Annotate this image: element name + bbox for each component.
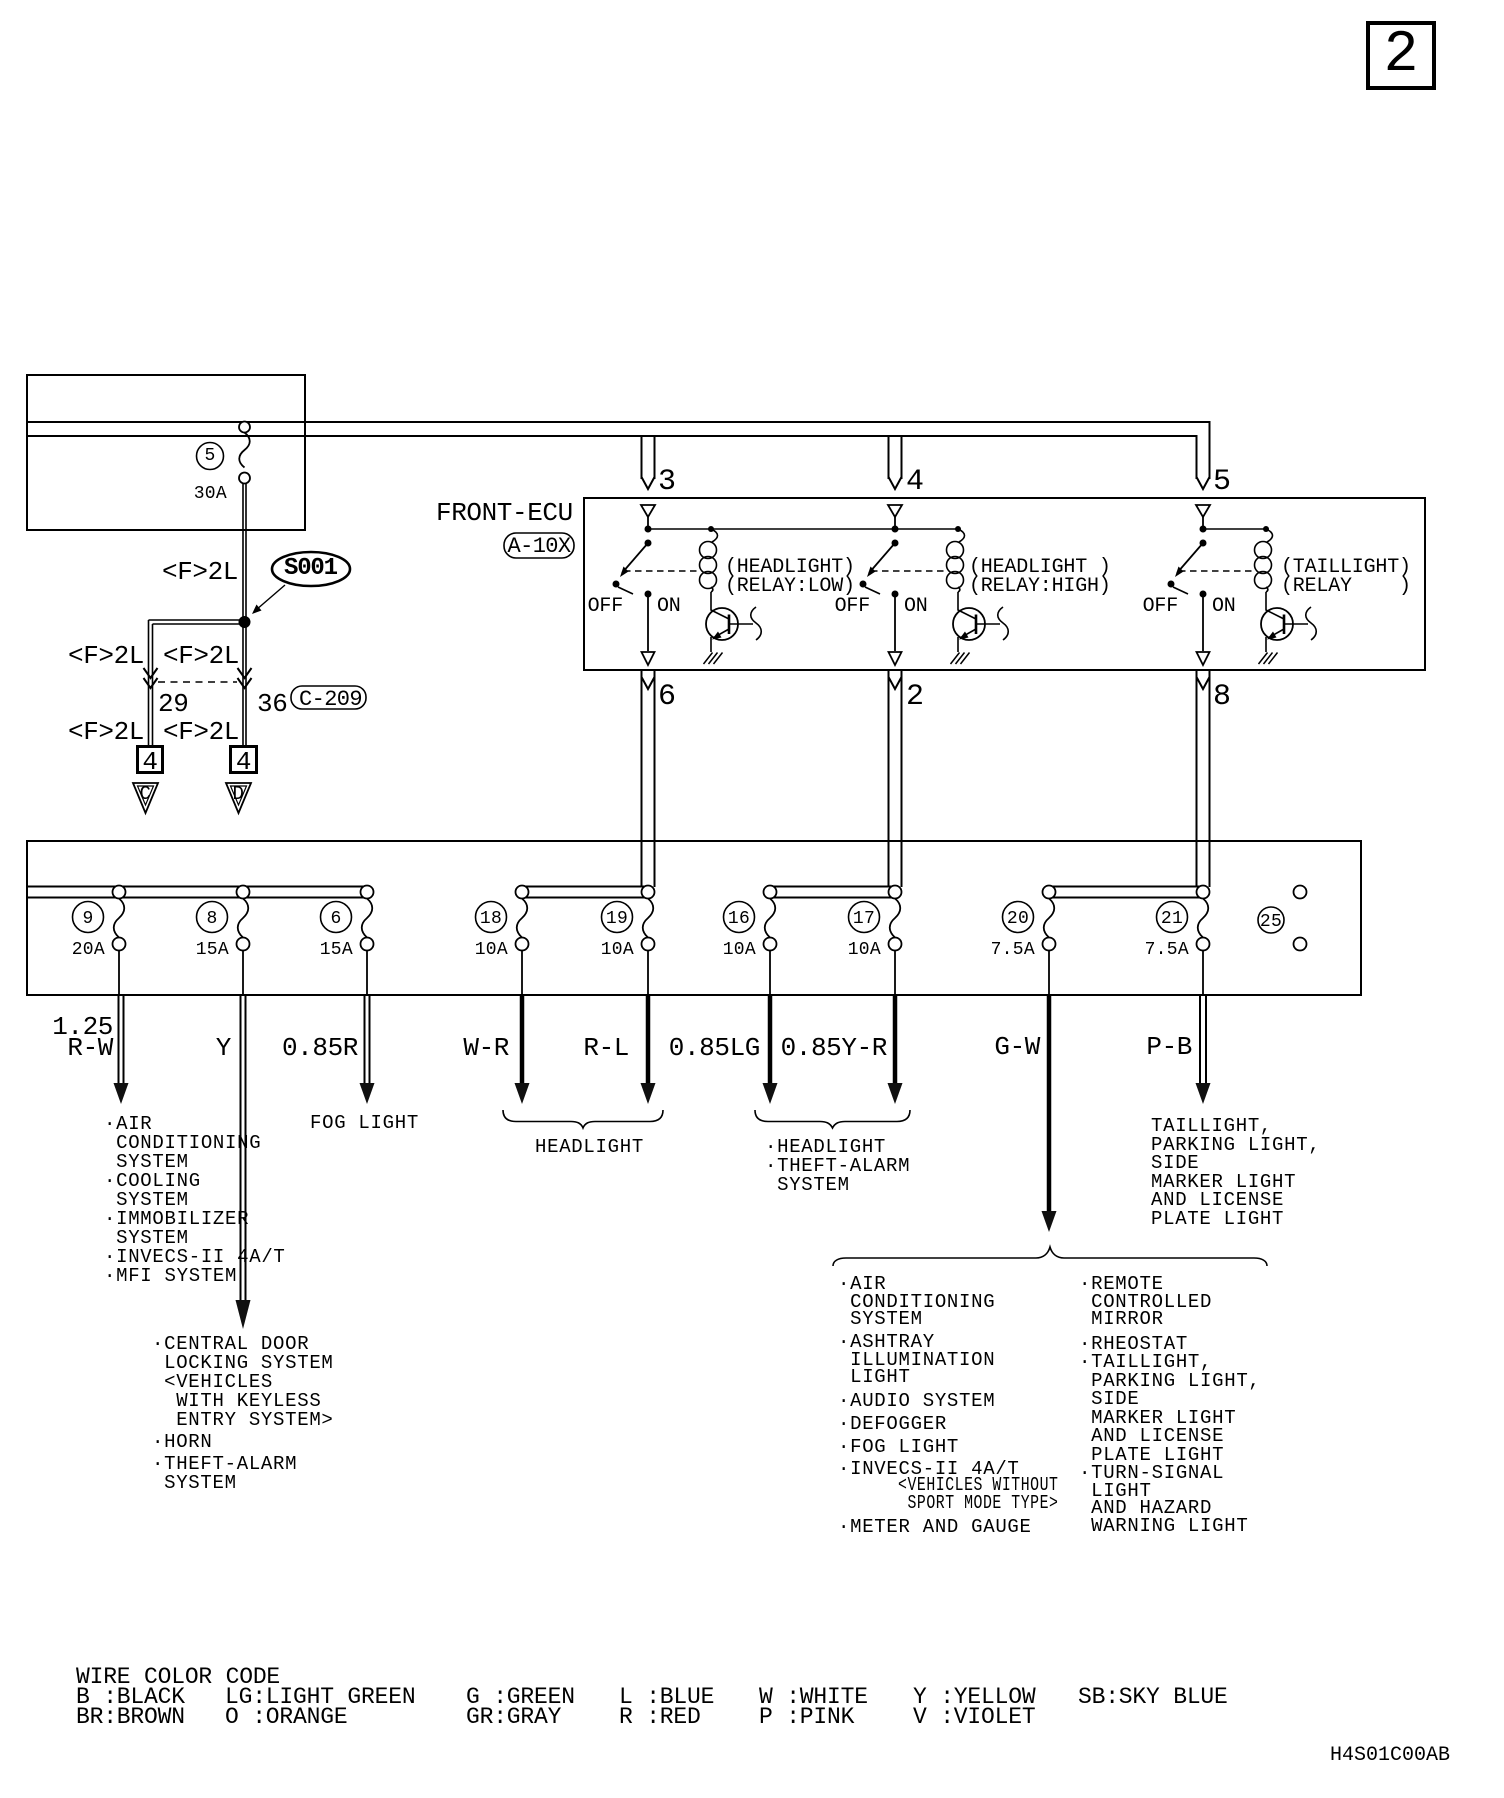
fuse 5 designator bbox=[195, 448, 225, 464]
wire P-B from fuse 21 bbox=[1196, 995, 1211, 1104]
label (F)2L left mid bbox=[68, 645, 144, 667]
connector chevron pin 6 bbox=[642, 677, 655, 689]
wire 1.25R-W from fuse 9 bbox=[114, 995, 129, 1104]
brace headlight group (fuses 18,19) bbox=[503, 1110, 663, 1128]
fuse 5 rating 30A bbox=[194, 486, 227, 502]
relay U3 name bbox=[1281, 559, 1411, 596]
C-209 label stadium bbox=[291, 686, 366, 709]
relay U2 OFF bbox=[835, 598, 870, 617]
relay U2 headlight relay high bbox=[860, 505, 1009, 665]
wire color Y bbox=[216, 1037, 231, 1059]
pin 3 bbox=[658, 469, 675, 495]
pin 4 bbox=[906, 469, 923, 495]
color code col 7 bbox=[1078, 1687, 1228, 1707]
wire: FRONT-ECU pin 2 to fuse 17 bbox=[889, 670, 902, 887]
pin 5 bbox=[1213, 469, 1230, 495]
fuse 21 rating bbox=[1145, 942, 1189, 958]
relay U1 ON bbox=[657, 598, 681, 617]
connector C-209 chevron right (pin 36) bbox=[238, 668, 252, 688]
wire color R-W bbox=[67, 1037, 113, 1059]
fuse 5 30A bbox=[197, 422, 251, 484]
FRONT-ECU box bbox=[584, 498, 1425, 670]
terminal 4 right bbox=[230, 751, 257, 773]
fuse 6 15A bbox=[321, 886, 374, 996]
fuse 16 designator bbox=[723, 911, 755, 927]
fuse 17 rating bbox=[848, 942, 881, 958]
fuse 6 designator bbox=[320, 911, 352, 927]
relay U3 OFF bbox=[1143, 598, 1178, 617]
battery feed bus wire (double line) to FRONT-ECU pins bbox=[27, 422, 1210, 479]
pin 2 bbox=[906, 684, 923, 710]
junction block bus bar segments bbox=[27, 887, 1203, 898]
fuse 21 designator bbox=[1156, 911, 1188, 927]
connector chevron pin 3 bbox=[642, 477, 655, 489]
relay U3 ON bbox=[1212, 598, 1236, 617]
pin 29 bbox=[158, 693, 188, 715]
color code col 6 bbox=[913, 1687, 1035, 1727]
connector chevron pin 4 bbox=[889, 477, 902, 489]
wire 0.85Y-R from fuse 17 bbox=[888, 995, 903, 1104]
label (F)2L upper bbox=[162, 561, 238, 583]
fuse 25 designator bbox=[1255, 914, 1287, 930]
wire color 0.85LG bbox=[669, 1037, 760, 1059]
fuse 21 7.5A bbox=[1157, 886, 1210, 996]
fuse 18 rating bbox=[475, 942, 508, 958]
connector chevron pin 8 bbox=[1197, 677, 1210, 689]
relay U1 OFF bbox=[588, 598, 623, 617]
fuse 17 designator bbox=[848, 911, 880, 927]
terminal 4 left bbox=[137, 751, 163, 773]
color code col 4 bbox=[619, 1687, 714, 1727]
load list G-W column 1 bbox=[838, 1276, 995, 1329]
destination D bbox=[226, 785, 251, 804]
pin 6 bbox=[658, 684, 675, 710]
load list G-W column 2 bbox=[1079, 1276, 1212, 1329]
color code col 1 bbox=[76, 1687, 185, 1727]
label (F)2L right mid bbox=[163, 645, 239, 667]
fuse 20 rating bbox=[991, 942, 1035, 958]
fuse 19 designator bbox=[601, 911, 633, 927]
fuse 25 terminals bbox=[1258, 886, 1307, 951]
fuse 8 designator bbox=[196, 911, 228, 927]
wire: drop to FRONT-ECU pin 4 bbox=[889, 436, 902, 479]
wire: splice branch to connector D (right) bbox=[243, 624, 246, 746]
connector C-209 dashed line bbox=[158, 681, 237, 683]
relay U2 name bbox=[969, 559, 1111, 596]
wire Y from fuse 8 bbox=[236, 995, 251, 1329]
wire color code title bbox=[76, 1667, 280, 1687]
wire 0.85LG from fuse 16 bbox=[763, 995, 778, 1104]
fuse 9 rating bbox=[72, 942, 105, 958]
brace headlight/theft-alarm group (fuses 16,17) bbox=[755, 1110, 910, 1128]
connector C-209 bbox=[299, 690, 362, 710]
fuse 8 rating bbox=[196, 942, 229, 958]
fuse 16 10A bbox=[724, 886, 777, 996]
FRONT-ECU title bbox=[436, 502, 573, 524]
wire color W-R bbox=[463, 1037, 509, 1059]
off-sheet triangle D bbox=[226, 783, 251, 813]
wire: drop to FRONT-ECU pin 3 bbox=[642, 436, 655, 479]
load list fuses 16,17 bbox=[765, 1138, 910, 1195]
page number box 2 bbox=[1368, 23, 1434, 88]
fuse 19 rating bbox=[601, 942, 634, 958]
label (F)2L left lower bbox=[68, 721, 144, 743]
wire: fuse 5 to splice S001 bbox=[243, 484, 246, 621]
junction block box bbox=[27, 841, 1361, 995]
pin 36 bbox=[257, 693, 287, 715]
load FOG LIGHT bbox=[310, 1114, 419, 1133]
wire R-L from fuse 19 bbox=[641, 995, 656, 1104]
fuse 9 designator bbox=[72, 911, 104, 927]
relay U2 ON bbox=[904, 598, 928, 617]
splice S001 dot bbox=[239, 616, 251, 628]
color code col 3 bbox=[466, 1687, 575, 1727]
drawing number bbox=[1330, 1747, 1450, 1765]
wire 0.85R from fuse 6 bbox=[360, 995, 375, 1104]
relay U1 headlight relay low bbox=[613, 505, 762, 665]
connector chevron pin 2 bbox=[889, 677, 902, 689]
fuse 6 rating bbox=[320, 942, 353, 958]
off-sheet triangle C bbox=[133, 783, 158, 813]
wire size 1.25 bbox=[52, 1016, 113, 1038]
wire W-R from fuse 18 bbox=[515, 995, 530, 1104]
wire: FRONT-ECU pin 6 to fuse 19 bbox=[642, 670, 655, 887]
connector terminal box 4 (to C) bbox=[138, 747, 163, 773]
S001 label ellipse bbox=[252, 552, 350, 614]
color code col 2 bbox=[225, 1687, 415, 1727]
wire color 0.85Y-R bbox=[781, 1037, 887, 1059]
page number 2 bbox=[1368, 35, 1434, 77]
relay U3 feed line to coil bbox=[1203, 528, 1266, 530]
color code col 5 bbox=[759, 1687, 868, 1727]
wire G-W from fuse 20 bbox=[1042, 995, 1057, 1232]
relay U1 name bbox=[725, 559, 855, 596]
connector chevron pin 5 bbox=[1197, 477, 1210, 489]
A-10X label stadium bbox=[504, 533, 574, 558]
fuse 9 20A bbox=[73, 886, 126, 996]
connector C-209 chevron left (pin 29) bbox=[144, 668, 158, 688]
load list fuse 21 bbox=[1151, 1117, 1320, 1228]
fuse 19 10A bbox=[602, 886, 655, 996]
fuse 16 rating bbox=[723, 942, 756, 958]
fuse 20 designator bbox=[1002, 911, 1034, 927]
wire color P-B bbox=[1146, 1036, 1192, 1058]
wire: splice branch to connector C (left) bbox=[149, 620, 245, 746]
wire color G-W bbox=[994, 1036, 1040, 1058]
label (F)2L right lower bbox=[163, 721, 239, 743]
load list fuse 9 bbox=[104, 1115, 286, 1286]
fusible-link box (top left, from preceding sheet) bbox=[27, 375, 305, 530]
connector terminal box 4 (to D) bbox=[231, 747, 257, 773]
load list fuse 8 bbox=[152, 1335, 334, 1430]
load HEADLIGHT bbox=[535, 1138, 644, 1157]
destination C bbox=[133, 785, 158, 804]
connector A-10X bbox=[504, 537, 574, 557]
fuse 20 7.5A bbox=[1003, 886, 1056, 996]
wire: FRONT-ECU pin 8 to fuse 21 bbox=[1197, 670, 1210, 887]
relay U1 feed line to coil bbox=[648, 528, 958, 530]
relay U3 taillight relay bbox=[1168, 505, 1317, 665]
fuse 18 10A bbox=[476, 886, 529, 996]
brace G-W load list bbox=[833, 1247, 1267, 1266]
fuse 17 10A bbox=[849, 886, 902, 996]
fuse 18 designator bbox=[475, 911, 507, 927]
wire color 0.85R bbox=[282, 1037, 358, 1059]
fuse 8 15A bbox=[197, 886, 250, 996]
wire color R-L bbox=[583, 1037, 629, 1059]
splice name S001 bbox=[284, 558, 337, 580]
pin 8 bbox=[1213, 684, 1230, 710]
